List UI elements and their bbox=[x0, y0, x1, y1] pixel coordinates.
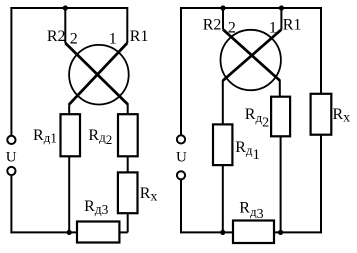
svg-text:R2: R2 bbox=[47, 28, 66, 45]
svg-text:2: 2 bbox=[228, 20, 236, 37]
svg-text:R1: R1 bbox=[130, 28, 149, 45]
svg-text:1: 1 bbox=[109, 30, 117, 47]
svg-text:U: U bbox=[6, 150, 17, 166]
svg-text:R2: R2 bbox=[203, 17, 222, 34]
svg-text:Rд1: Rд1 bbox=[33, 127, 57, 146]
svg-text:1: 1 bbox=[269, 20, 277, 37]
svg-text:U: U bbox=[176, 149, 187, 165]
svg-text:R1: R1 bbox=[283, 17, 302, 34]
svg-text:2: 2 bbox=[70, 30, 78, 47]
